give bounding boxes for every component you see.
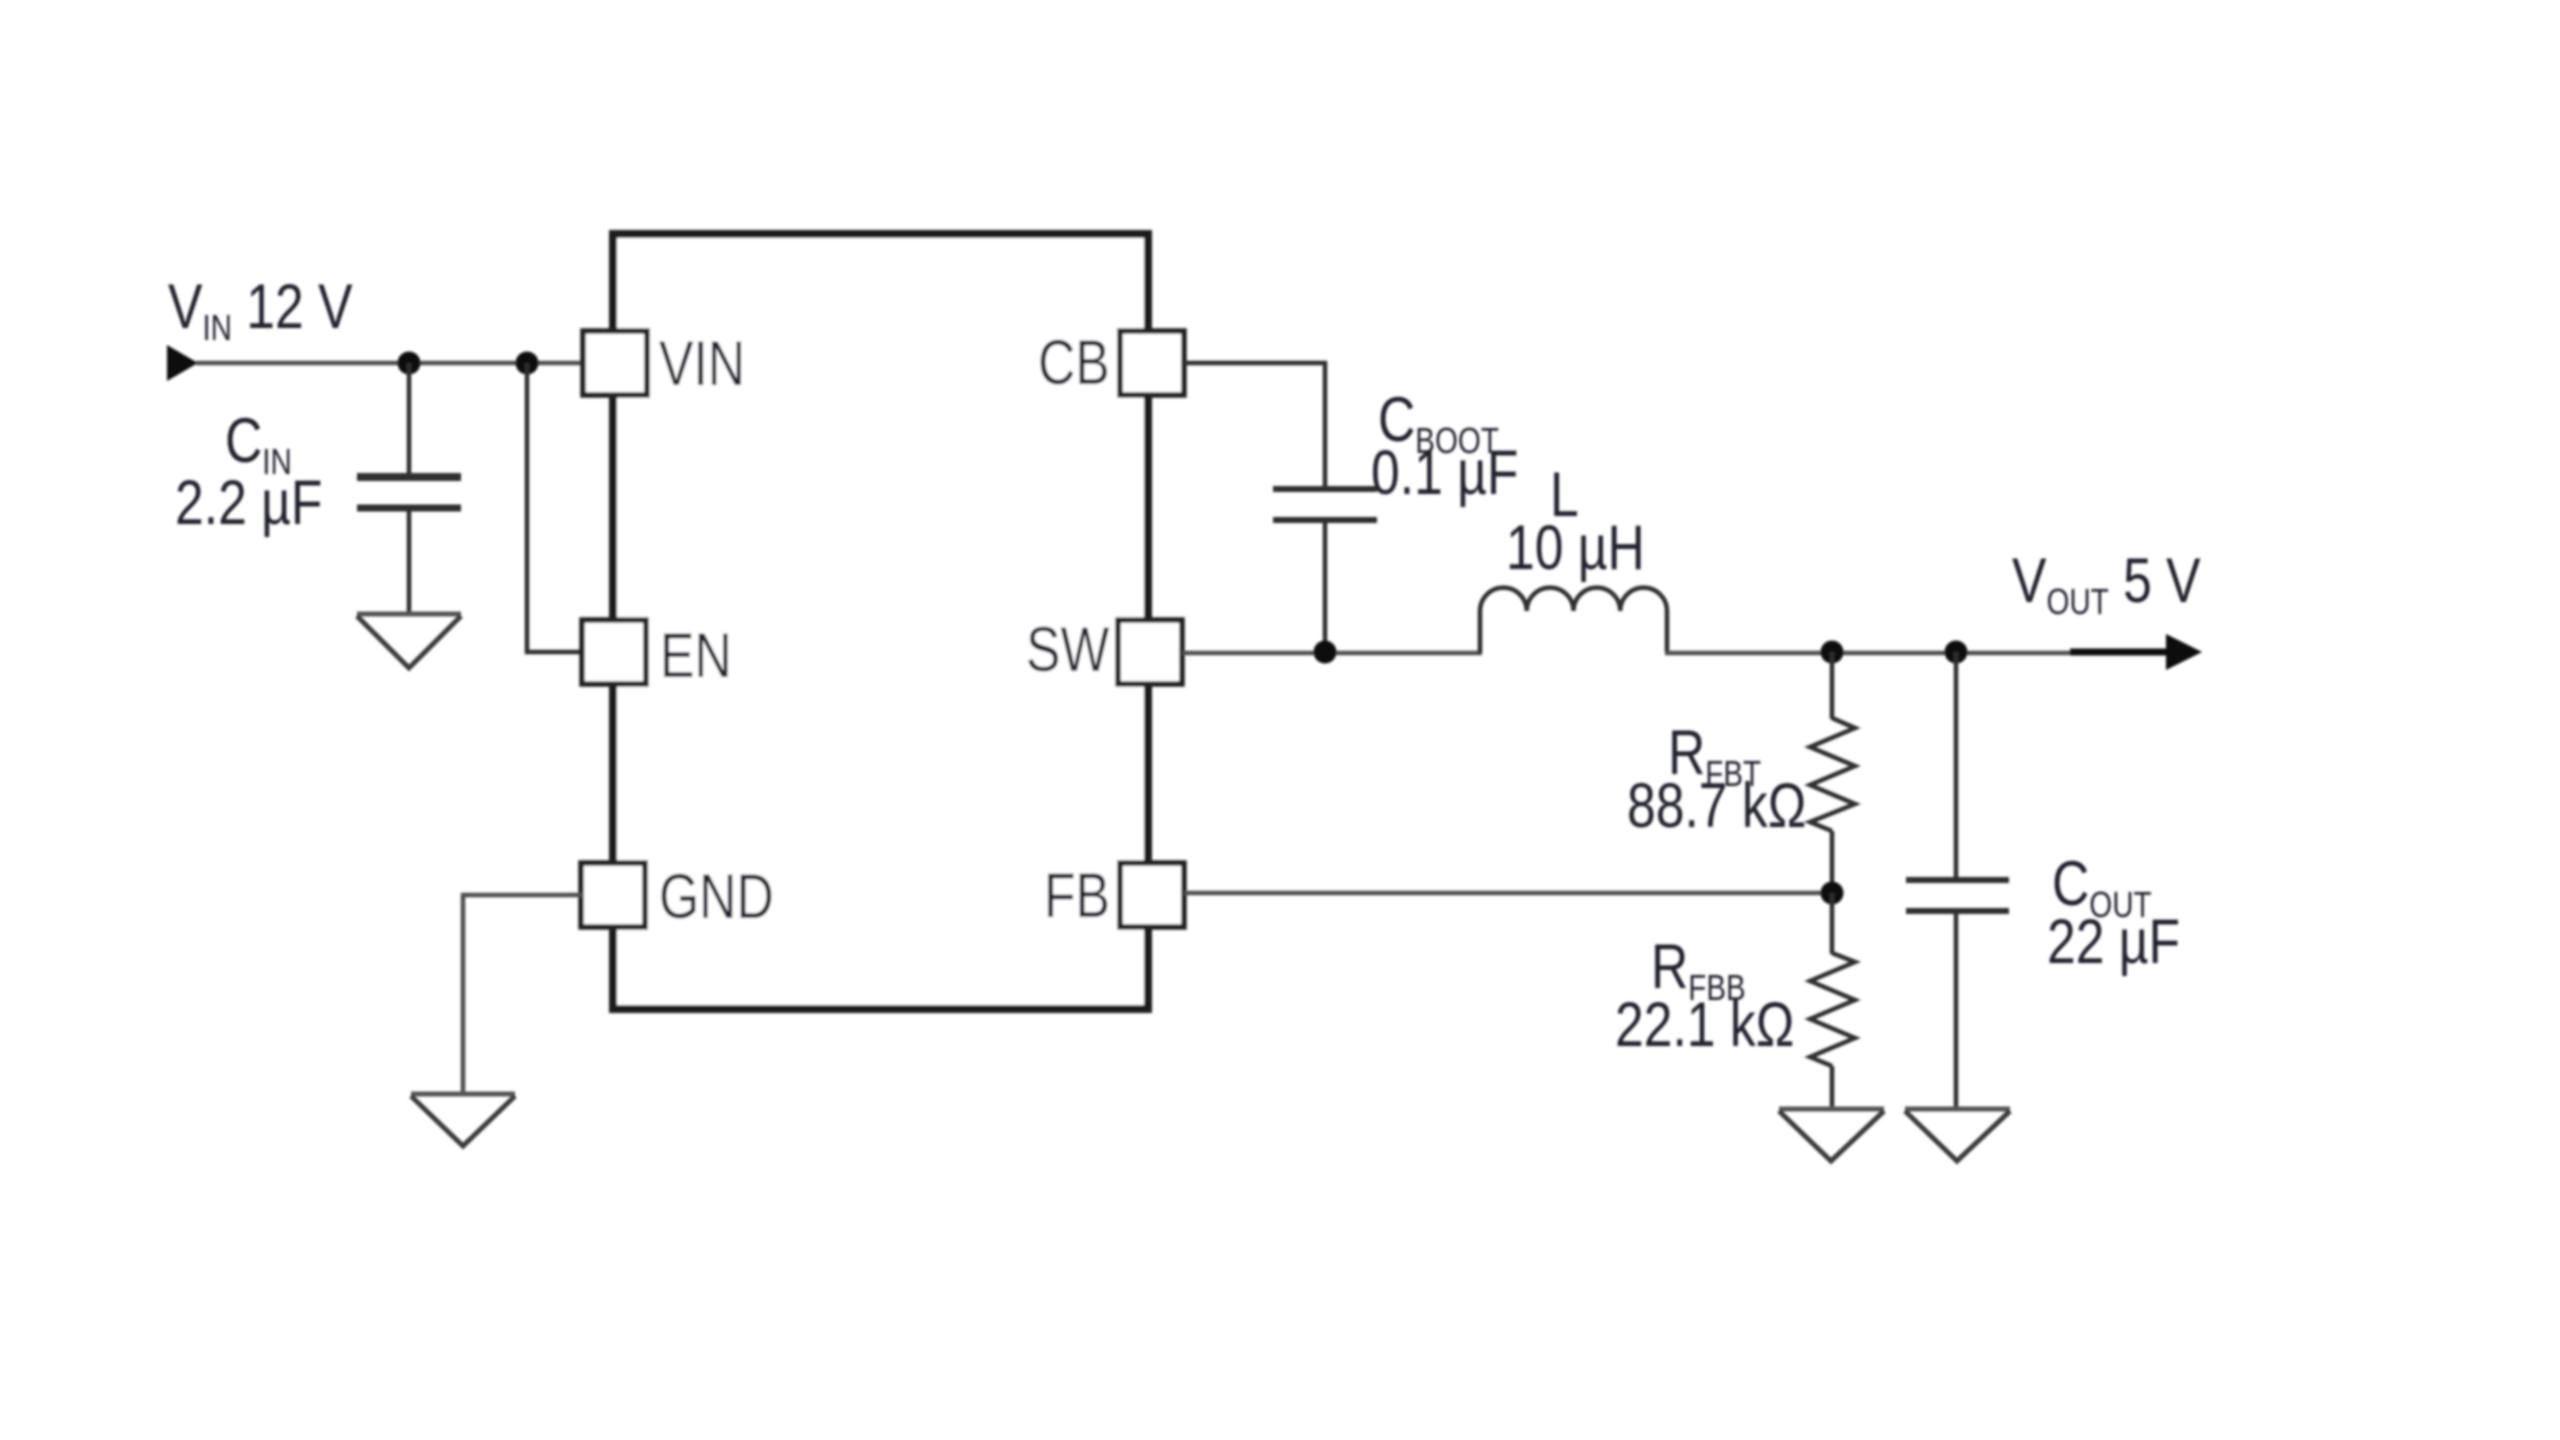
svg-text:VIN 12 V: VIN 12 V xyxy=(168,272,353,347)
op-amp U1 regulator IC body xyxy=(613,234,1148,1009)
pin EN box xyxy=(582,620,646,684)
wire EN tap vertical xyxy=(527,363,583,652)
wire CB to CBOOT xyxy=(1184,363,1325,487)
pin SW box xyxy=(1118,620,1182,684)
label 10 uH xyxy=(1506,513,1645,583)
label 2.2 uF xyxy=(175,468,322,538)
resistor RFBB lead bottom xyxy=(1830,1066,1835,1108)
label COUT xyxy=(2052,849,2152,924)
label 22.1 kOhm xyxy=(1615,990,1794,1060)
svg-text:88.7 kΩ: 88.7 kΩ xyxy=(1627,771,1806,841)
pin CB box xyxy=(1120,331,1184,395)
wire FB to divider xyxy=(1184,891,1832,896)
svg-text:22.1 kΩ: 22.1 kΩ xyxy=(1615,990,1794,1060)
wire SW to inductor xyxy=(1182,651,1482,656)
ground for COUT xyxy=(1905,1109,2010,1161)
label 88.7 kOhm xyxy=(1627,771,1806,841)
node FB junction dot xyxy=(1821,882,1844,905)
label RFBT xyxy=(1668,718,1761,793)
label EN pin xyxy=(660,621,732,691)
label CB pin xyxy=(1038,328,1110,398)
capacitor COUT lead top xyxy=(1954,652,1959,880)
capacitor CBOOT plates xyxy=(1273,486,1377,492)
label 0.1 uF xyxy=(1371,438,1518,508)
svg-text:0.1 µF: 0.1 µF xyxy=(1371,438,1518,508)
pin GND box xyxy=(581,863,645,927)
wire inductor to output xyxy=(1665,651,2072,656)
ground for GND pin xyxy=(411,1094,515,1146)
capacitor CIN lead bottom xyxy=(407,508,412,613)
svg-text:CB: CB xyxy=(1038,328,1110,398)
wire VIN input horizontal xyxy=(196,361,583,366)
label CBOOT xyxy=(1378,385,1499,460)
svg-text:VOUT 5 V: VOUT 5 V xyxy=(2012,546,2201,621)
resistor RFBB lead top xyxy=(1830,893,1835,954)
label L xyxy=(1550,460,1579,530)
svg-text:VIN: VIN xyxy=(659,329,745,399)
resistor RFBT lead bottom xyxy=(1830,831,1835,893)
node VIN input port arrow xyxy=(167,345,198,381)
resistor RFBT lead top xyxy=(1830,652,1835,719)
label GND pin xyxy=(659,862,774,932)
ground for CIN xyxy=(357,614,461,668)
node VIN junction dot at CIN tap xyxy=(398,352,421,375)
ground for RFBB xyxy=(1779,1109,1884,1161)
svg-text:GND: GND xyxy=(659,862,774,932)
capacitor CIN lead top xyxy=(407,363,412,477)
label SW pin xyxy=(1026,615,1110,685)
inductor L xyxy=(1480,588,1667,653)
svg-text:22 µF: 22 µF xyxy=(2047,907,2180,977)
capacitor COUT lead bottom xyxy=(1954,911,1959,1108)
capacitor COUT plates xyxy=(1906,877,2009,883)
svg-text:SW: SW xyxy=(1026,615,1110,685)
label VIN 12 V xyxy=(168,272,353,347)
wire VOUT output bold segment xyxy=(2070,649,2170,656)
node SW junction dot xyxy=(1314,641,1337,664)
node VOUT junction dot at RFBT xyxy=(1821,641,1844,664)
wire GND pin to ground xyxy=(463,895,583,1094)
label VIN pin xyxy=(659,329,745,399)
resistor RFBB zigzag xyxy=(1810,953,1855,1066)
svg-text:EN: EN xyxy=(660,621,732,691)
svg-text:10 µH: 10 µH xyxy=(1506,513,1645,583)
capacitor CIN plates xyxy=(357,473,461,481)
label VOUT 5 V xyxy=(2012,546,2201,621)
pin VIN box xyxy=(583,331,647,395)
node VOUT junction dot at COUT xyxy=(1945,641,1968,664)
label 22 uF xyxy=(2047,907,2180,977)
node VIN junction dot at EN tap xyxy=(516,352,539,375)
svg-text:2.2 µF: 2.2 µF xyxy=(175,468,322,538)
svg-text:FB: FB xyxy=(1044,861,1110,931)
pin FB box xyxy=(1120,863,1184,927)
label FB pin xyxy=(1044,861,1110,931)
capacitor CBOOT lead bottom xyxy=(1323,520,1328,652)
node VOUT output port arrow xyxy=(2166,634,2202,670)
label CIN xyxy=(225,406,292,481)
resistor RFBT zigzag xyxy=(1810,718,1855,831)
label RFBB xyxy=(1651,932,1746,1007)
